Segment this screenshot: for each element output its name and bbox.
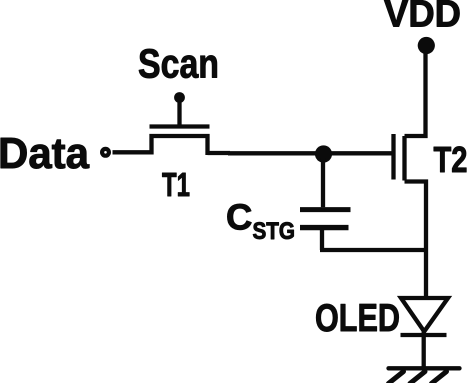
wire junction down to capacitor top plate: [321, 158, 325, 207]
svg-text:T2: T2: [434, 139, 468, 180]
svg-text:Scan: Scan: [138, 41, 219, 87]
transistor T2 source connection: [405, 182, 427, 299]
wire Data terminal to T1 source: [113, 150, 154, 154]
svg-text:Data: Data: [0, 129, 89, 178]
transistor T2 drain connection: [405, 50, 426, 136]
svg-text:C: C: [226, 196, 252, 237]
wire Scan to T1 gate: [177, 99, 181, 127]
ground hatch stroke 3: [432, 372, 447, 383]
node Data input terminal: [102, 149, 109, 156]
wire T1 drain to storage node to T2 gate: [228, 151, 394, 155]
node Scan terminal dot: [174, 92, 185, 103]
node storage junction dot: [315, 145, 332, 162]
svg-text:T1: T1: [162, 167, 190, 204]
svg-text:OLED: OLED: [315, 297, 400, 340]
svg-text:STG: STG: [253, 219, 296, 245]
transistor T1 channel (source-channel-drain): [152, 136, 231, 155]
transistor T1 gate bar: [150, 124, 210, 128]
transistor T2 gate bar: [391, 134, 395, 180]
ground bar: [389, 366, 460, 370]
capacitor CSTG top plate: [300, 207, 351, 212]
ground hatch stroke 2: [410, 372, 425, 383]
transistor T2 channel bar: [402, 136, 406, 181]
wire capacitor bottom plate to T2 source line: [320, 229, 426, 250]
diode OLED cathode bar: [401, 333, 447, 337]
wire OLED cathode to ground: [422, 331, 426, 367]
svg-text:VDD: VDD: [384, 0, 461, 36]
capacitor CSTG bottom plate: [300, 225, 349, 230]
diode OLED anode bar and triangle: [401, 298, 448, 332]
ground hatch stroke 1: [389, 372, 404, 383]
power VDD terminal dot: [418, 37, 435, 54]
